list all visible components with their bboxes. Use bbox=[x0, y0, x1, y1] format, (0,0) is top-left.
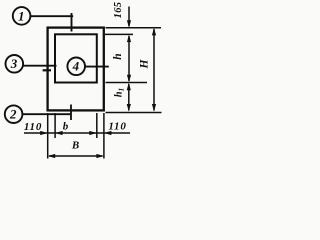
leader 3 tick bbox=[43, 69, 51, 71]
svg-text:3: 3 bbox=[10, 56, 18, 71]
balloon 4 bbox=[67, 58, 85, 76]
svg-text:110: 110 bbox=[108, 120, 126, 132]
svg-text:110: 110 bbox=[24, 121, 42, 133]
svg-text:h: h bbox=[112, 53, 124, 59]
leader 2 bbox=[22, 113, 71, 115]
leader 3 bbox=[23, 65, 57, 67]
svg-text:H: H bbox=[139, 58, 151, 69]
extension line outer bottom (right side) bbox=[106, 112, 162, 114]
outer rectangle (section outline) bbox=[48, 28, 104, 111]
balloon 3 bbox=[6, 55, 24, 73]
balloon 2 bbox=[5, 105, 23, 123]
dimension line B bbox=[49, 155, 103, 157]
svg-text:b: b bbox=[63, 120, 69, 132]
dimension H line bbox=[153, 29, 155, 111]
dimension h line bbox=[128, 36, 130, 81]
inner rectangle (cavity) bbox=[55, 34, 97, 82]
dimension line 110 / b / 110 bbox=[24, 132, 130, 134]
extension line inner top (right side) bbox=[105, 33, 133, 35]
extension line outer-left (bottom) bbox=[47, 113, 49, 159]
dimension h1 line bbox=[128, 84, 130, 110]
svg-text:4: 4 bbox=[72, 59, 80, 74]
svg-text:2: 2 bbox=[9, 107, 17, 122]
leader 1 bbox=[30, 15, 73, 17]
extension line inner-right (bottom) bbox=[96, 113, 98, 138]
svg-text:1: 1 bbox=[18, 8, 25, 23]
dimension 165 arrow line bbox=[128, 7, 130, 27]
extension line inner-left (bottom) bbox=[54, 113, 56, 138]
svg-text:165: 165 bbox=[113, 2, 124, 19]
extension line outer-right (bottom) bbox=[103, 113, 105, 159]
extension line inner bottom (right side) bbox=[106, 82, 148, 84]
leader 2 tick bbox=[70, 105, 72, 121]
extension line top (outer top, right side) bbox=[106, 27, 162, 29]
svg-text:B: B bbox=[71, 140, 79, 152]
leader 4 bbox=[85, 66, 109, 68]
balloon 1 bbox=[13, 7, 31, 25]
leader 1 tick bbox=[71, 13, 73, 32]
